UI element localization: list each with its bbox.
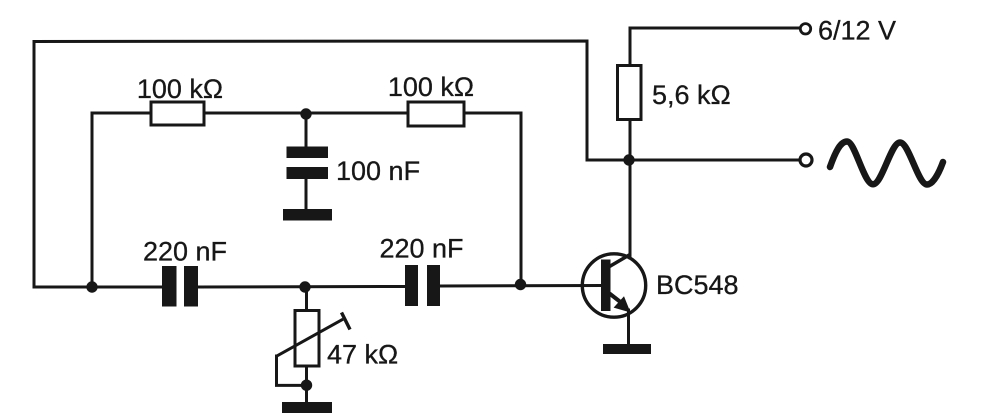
svg-text:100 kΩ: 100 kΩ — [137, 74, 223, 104]
svg-text:BC548: BC548 — [656, 270, 739, 300]
svg-text:5,6 kΩ: 5,6 kΩ — [652, 80, 731, 110]
svg-text:100 nF: 100 nF — [336, 156, 420, 186]
svg-text:220 nF: 220 nF — [379, 234, 463, 264]
svg-text:6/12 V: 6/12 V — [818, 16, 896, 46]
svg-text:220 nF: 220 nF — [143, 237, 227, 267]
svg-text:47 kΩ: 47 kΩ — [327, 340, 398, 370]
svg-text:100 kΩ: 100 kΩ — [388, 72, 474, 102]
